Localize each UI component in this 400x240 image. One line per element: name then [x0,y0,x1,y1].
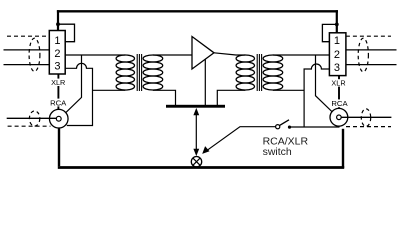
wire: T1 secondary top to amp input [153,54,192,56]
wire: amp common to ground bar [204,59,206,105]
wire: right XLR pin1 drop from bus [336,10,338,33]
cable: right RCA dashed shield line [346,126,391,128]
cable: left RCA hot line [7,117,57,119]
wire: left pin2 to transformer T1 primary top [65,54,125,56]
wire: T1 primary bottom [93,89,126,91]
pin numbers right XLR [334,35,340,74]
wire: right XLR shell stub to RCA shell [338,76,340,109]
wire: T2 secondary top to right pin2 [273,54,330,56]
cable: right XLR dashed shield line pin1 [346,35,391,37]
cable: left RCA cable shield ellipse [29,111,39,126]
transformer T2 primary coil [236,55,254,90]
switch S1 (RCA/XLR) lever and contacts [202,120,339,154]
cable: right RCA cable shield ellipse [361,109,370,127]
XLR connector J1 (left) body [49,31,65,75]
cable: right RCA hot line [341,116,391,118]
wire: left pin3 with hop over tap, down to RCA shell [65,63,92,125]
svg-text:2: 2 [54,48,60,60]
svg-text:RCA: RCA [331,99,348,108]
cable: right XLR cable shield ellipse [358,38,368,72]
wire: chassis bus right riser [342,129,344,168]
transformer T1 core [137,54,141,91]
wire: left XLR pin1 drop from bus [57,10,59,31]
wire: right pin3 with hop over tap, down to switch node [304,64,329,127]
svg-text:2: 2 [334,49,340,61]
svg-text:1: 1 [334,35,340,47]
wire: chassis bus left drop [58,128,60,167]
svg-text:RCA: RCA [50,98,67,107]
svg-text:XLR: XLR [331,79,345,88]
wire: left RCA hot tap down to RCA pin [61,55,82,117]
transformer T1 primary coil [116,55,134,90]
double-headed arrow between ground bar and chassis point [193,108,199,156]
wire: right XLR shell loop to pin1 [322,24,336,41]
transformer T2 secondary coil [263,55,283,90]
wire: chassis bottom bus [58,166,344,169]
wire: T2 secondary bottom to pin3 node [273,89,304,91]
label: XLR (right) [330,79,347,88]
cable: left XLR cable shield ellipse [29,38,40,71]
cable: left XLR line pin3 [4,64,50,66]
svg-text:switch: switch [263,146,292,158]
cable: right XLR line pin3 [346,64,397,66]
cable: left XLR dashed shield line pin1 [7,35,49,37]
transformer T2 core [257,54,261,91]
cable: right XLR line pin2 [346,49,397,51]
junction dot left pin1/shell node [56,22,60,26]
ground bar (signal ground) [166,105,225,108]
RCA jack J4 (right) [330,108,348,126]
junction dot right pin1/shell node [335,23,339,27]
wire: T2 primary bottom to ground bar [217,90,245,105]
label: RCA/XLR switch [263,135,309,158]
cable: left RCA dashed shield line [8,125,51,127]
op-amp U1 [192,37,214,70]
svg-text:XLR: XLR [51,78,65,87]
RCA jack J3 (left) [49,109,68,128]
wire: top ground bus [57,10,338,12]
transformer T1 secondary coil [143,55,163,90]
XLR connector J2 (right) body [329,33,346,76]
pin numbers left XLR [54,35,60,73]
cable: left XLR line pin2 [4,49,50,51]
chassis connection point symbol (circle-X) [191,157,201,167]
svg-text:1: 1 [54,35,60,47]
wire: amp output to T2 primary top [214,53,245,55]
label: XLR (left) [50,78,67,87]
svg-text:3: 3 [54,61,60,73]
label: RCA (right) [331,99,349,108]
wire: right RCA hot tap down to RCA pin [316,55,338,117]
label: RCA (left) [50,98,68,107]
svg-text:3: 3 [334,62,340,74]
wire: left XLR shell loop to pin1 [58,24,75,42]
wire: T1 secondary bottom to ground bar [153,90,176,105]
wire: left XLR shell stub to RCA shell [57,74,59,110]
